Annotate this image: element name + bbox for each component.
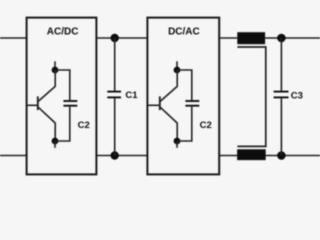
svg-text:DC/AC: DC/AC	[168, 27, 200, 38]
junction dot node dc+	[111, 34, 119, 42]
transistor Q2 base lead	[147, 104, 159, 106]
capacitor C2 (DC/AC) plates	[185, 101, 199, 106]
capacitor C1 leads	[114, 38, 116, 156]
transistor Q2 emitter lead	[160, 107, 177, 141]
wire capacitor C2a top	[55, 70, 70, 100]
svg-text:AC/DC: AC/DC	[47, 27, 79, 38]
transistor Q1 base lead	[27, 104, 38, 106]
wire dc-link top	[96, 37, 147, 39]
svg-text:C2: C2	[200, 120, 212, 131]
wire left input bottom	[0, 155, 27, 157]
node stub top (AC/DC interior)	[54, 61, 56, 70]
junction dot node dc-	[111, 151, 119, 159]
wire capacitor C2b bottom	[177, 107, 192, 141]
capacitor C3 plates	[274, 92, 289, 98]
wire output bottom left	[219, 155, 237, 157]
capacitor C3 leads	[280, 38, 282, 156]
wire output top left	[219, 37, 237, 39]
junction dot bottom (DC/AC interior)	[174, 138, 181, 145]
junction dot node out+	[277, 34, 286, 43]
magnetic core line	[237, 47, 265, 146]
svg-text:C2: C2	[78, 120, 90, 131]
transistor Q2 collector lead	[160, 70, 177, 101]
wire capacitor C2a bottom	[55, 107, 70, 141]
converter block AC/DC	[27, 18, 97, 175]
wire output bottom right	[266, 155, 320, 157]
junction dot top (DC/AC interior)	[174, 67, 181, 74]
junction dot top (AC/DC interior)	[52, 67, 59, 74]
node stub bottom (DC/AC interior)	[176, 141, 178, 148]
junction dot bottom (AC/DC interior)	[52, 138, 59, 145]
wire capacitor C2b top	[177, 70, 192, 100]
capacitor C1 plates	[107, 92, 121, 98]
node stub bottom (AC/DC interior)	[54, 141, 56, 148]
wire output top right	[265, 37, 320, 39]
transistor Q1 bar	[37, 96, 39, 110]
transistor Q2 bar	[159, 96, 161, 110]
inductor L1 (top, solid)	[237, 32, 265, 44]
transistor Q1 collector lead	[38, 70, 55, 101]
transistor Q1 emitter lead	[38, 107, 55, 141]
capacitor C2 (AC/DC) plates	[63, 101, 77, 106]
converter block DC/AC	[147, 18, 219, 175]
node stub top (DC/AC interior)	[176, 61, 178, 70]
junction dot node out-	[277, 151, 286, 160]
svg-text:C1: C1	[125, 90, 138, 101]
inductor L2 (bottom, solid)	[237, 149, 266, 160]
wire dc-link bottom	[96, 155, 147, 157]
wire left input top	[0, 37, 27, 39]
svg-text:C3: C3	[291, 90, 303, 101]
